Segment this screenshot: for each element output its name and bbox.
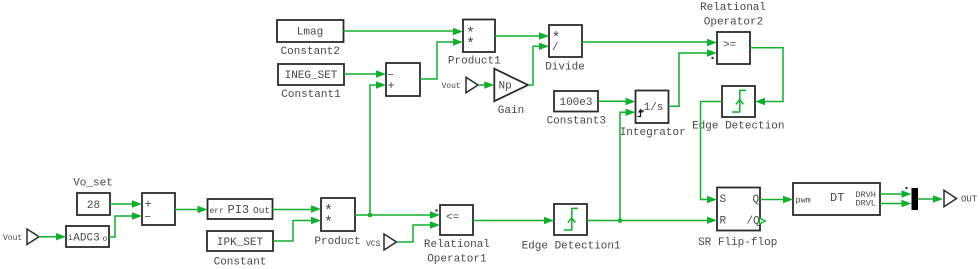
wire SR Q to pwm block	[760, 196, 793, 203]
svg-text:INEG_SET: INEG_SET	[285, 70, 338, 82]
integrator block Integrator (1/s with reset)	[620, 91, 686, 139]
svg-text:Lmag: Lmag	[297, 27, 323, 39]
svg-text:Vout: Vout	[3, 234, 22, 243]
svg-text:Integrator: Integrator	[620, 127, 686, 139]
svg-text:Np: Np	[499, 81, 512, 93]
svg-text:Q: Q	[753, 194, 760, 206]
wire Relational Operator1 to Edge Detection1	[473, 217, 554, 224]
tiny dot near mux input	[905, 187, 907, 189]
svg-text:Vout: Vout	[442, 82, 461, 91]
product block Product1	[448, 20, 501, 68]
svg-text:Relational: Relational	[700, 2, 766, 14]
output port OUT	[944, 190, 978, 206]
wire Integrator to Relational Operator2	[669, 49, 718, 106]
subsystem PI3 (err / Out)	[208, 199, 273, 219]
wire mux to OUT	[918, 195, 943, 202]
product block Product	[314, 198, 360, 248]
svg-text:IPK_SET: IPK_SET	[217, 237, 264, 249]
constant Constant1 (INEG_SET)	[278, 64, 344, 101]
svg-text:R: R	[720, 216, 727, 228]
constant Constant2 (Lmag)	[277, 20, 344, 58]
svg-text:VCS: VCS	[366, 240, 381, 249]
svg-text:Constant1: Constant1	[281, 89, 341, 101]
wire DRVH to mux	[880, 190, 912, 197]
junction node on Product output	[368, 213, 373, 218]
input port VCS	[366, 234, 397, 250]
wire Vout to Gain	[478, 81, 494, 88]
wire Product to Relational Operator1 (with branch up to Sum2)	[355, 81, 440, 218]
svg-text:28: 28	[87, 200, 100, 212]
svg-text:Relational: Relational	[424, 239, 490, 251]
constant Constant (IPK_SET)	[207, 231, 273, 268]
svg-text:pwm: pwm	[796, 196, 811, 206]
svg-text:S: S	[720, 194, 727, 206]
relational operator block Relational Operator1 (<=)	[424, 205, 490, 265]
wire IPK_SET to Product	[273, 217, 321, 241]
svg-text:OUT: OUT	[961, 195, 978, 205]
svg-text:Constant3: Constant3	[547, 115, 606, 127]
wire Relational Operator2 to Edge Detection	[750, 48, 783, 105]
relational operator block Relational Operator2 (>=)	[700, 2, 766, 64]
wire Sum2 to Product1	[420, 38, 463, 79]
svg-text:Edge Detection: Edge Detection	[692, 121, 784, 133]
svg-text:Product1: Product1	[448, 55, 501, 67]
svg-text:–: –	[144, 209, 151, 223]
tiny dot near Relational Operator2 input	[711, 57, 713, 59]
wire Edge Detection1 to SR R input (with branch up to Integrator reset)	[587, 109, 717, 224]
svg-text:ADC3: ADC3	[73, 233, 99, 245]
subsystem ADC3 (i / o)	[66, 226, 109, 247]
wire Constant3 to Integrator	[598, 98, 636, 105]
wire Vout to ADC3	[39, 233, 66, 240]
svg-text:*: *	[466, 36, 475, 53]
svg-text:i: i	[68, 234, 73, 243]
junction node on Edge Detection1 output	[618, 218, 623, 223]
wire Edge Detection to SR S input	[701, 102, 723, 204]
tiny dot near Relational Operator1 input	[435, 209, 437, 211]
svg-text:Out: Out	[253, 205, 270, 216]
constant Vo_set (28)	[73, 178, 113, 216]
wire Sum1 to PI3	[175, 206, 208, 213]
svg-text:*: *	[324, 214, 333, 231]
svg-text:PI3: PI3	[228, 203, 250, 217]
svg-text:/Q: /Q	[747, 216, 761, 228]
svg-text:Product: Product	[314, 236, 360, 248]
svg-text:Divide: Divide	[545, 62, 585, 74]
input port Vout (bottom)	[3, 229, 39, 245]
svg-text:Edge Detection1: Edge Detection1	[522, 241, 621, 253]
subsystem pwm DT (DRVH/DRVL)	[793, 183, 880, 215]
divide block Divide	[545, 25, 585, 74]
wire INEG_SET to Sum2	[344, 70, 386, 77]
svg-text:Constant2: Constant2	[281, 46, 340, 58]
wire DRVL to mux	[880, 200, 912, 207]
svg-text:Vo_set: Vo_set	[73, 178, 113, 190]
svg-text:DRVL: DRVL	[856, 199, 876, 209]
sum block Sum1 (bottom, plus-minus)	[142, 193, 175, 225]
svg-text:Gain: Gain	[498, 105, 524, 117]
edge detection block Edge Detection (mirrored)	[692, 86, 784, 133]
svg-text:err: err	[210, 207, 225, 216]
wire VCS to Relational Operator1	[397, 221, 441, 242]
unconnected port marker /Q	[760, 218, 766, 224]
SR flip-flop block	[698, 188, 777, 249]
wire Gain to Divide	[528, 43, 549, 85]
mux bar	[912, 188, 919, 210]
svg-text:1/s: 1/s	[644, 102, 664, 114]
edge detection block Edge Detection1	[522, 204, 621, 253]
svg-text:o: o	[103, 235, 108, 244]
svg-text:100e3: 100e3	[559, 97, 592, 109]
input port Vout (top)	[442, 77, 479, 92]
svg-text:<=: <=	[446, 212, 459, 224]
svg-text:/: /	[552, 42, 559, 54]
wire Product1 to Divide	[495, 32, 549, 39]
gain block Gain (Np)	[494, 69, 528, 117]
sum block Sum2 (top, minus-plus)	[386, 63, 420, 96]
svg-text:Operator2: Operator2	[704, 17, 763, 29]
svg-text:>=: >=	[723, 40, 736, 52]
svg-text:Constant: Constant	[214, 256, 267, 268]
wire PI3 to Product	[273, 205, 322, 212]
svg-text:SR Flip-flop: SR Flip-flop	[698, 237, 777, 249]
wire ADC3 to Sum1	[109, 212, 142, 237]
constant Constant3 (100e3)	[547, 91, 606, 127]
wire Lmag to Product1	[344, 28, 464, 35]
wire Divide to Relational Operator2	[582, 39, 717, 46]
wire 28 to Sum1	[110, 200, 142, 207]
svg-text:Operator1: Operator1	[427, 253, 487, 265]
svg-text:DT: DT	[830, 191, 844, 205]
svg-text:+: +	[388, 79, 395, 93]
